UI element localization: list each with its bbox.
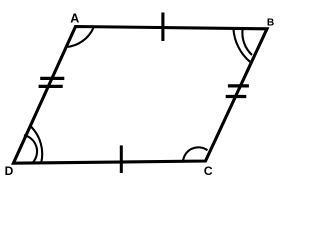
svg-text:B: B bbox=[267, 18, 274, 29]
svg-text:D: D bbox=[5, 164, 14, 178]
svg-text:C: C bbox=[204, 164, 213, 178]
svg-text:A: A bbox=[70, 12, 79, 26]
